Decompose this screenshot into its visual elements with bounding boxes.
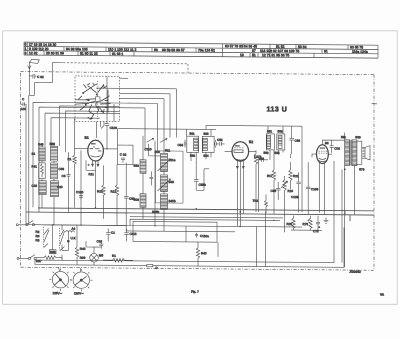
svg-text:C112: C112 <box>130 232 137 236</box>
svg-text:S1: S1 <box>32 152 36 156</box>
svg-text:12 32: 12 32 <box>29 51 38 55</box>
mark VA <box>380 293 385 297</box>
svg-text:13: 13 <box>240 53 244 57</box>
svg-text:C 02: C 02 <box>120 153 127 157</box>
svg-text:D: D <box>156 266 159 270</box>
svg-text:S30: S30 <box>134 164 140 168</box>
svg-text:C03: C03 <box>58 167 64 171</box>
svg-text:C10: C10 <box>97 239 103 243</box>
parts value table <box>24 42 378 58</box>
svg-text:564: 564 <box>275 151 280 155</box>
resistor R8b box <box>50 250 57 254</box>
tube B2 pin wires <box>225 151 256 226</box>
output transformer S76 <box>341 135 365 171</box>
osc wires <box>69 118 96 225</box>
capacitor C52 <box>217 138 225 146</box>
svg-text:563: 563 <box>278 129 283 133</box>
svg-text:51: 51 <box>252 53 256 57</box>
code XG2842 <box>349 270 362 274</box>
svg-text:R19: R19 <box>288 189 294 193</box>
IF transformer 2 left <box>264 129 275 155</box>
coil S40b <box>152 194 176 214</box>
resistor R1 osc <box>68 150 77 168</box>
svg-text:C1: C1 <box>111 231 115 235</box>
bus wire ht3 <box>126 230 235 233</box>
mains terminal bottom <box>17 257 28 259</box>
coil S2 <box>32 181 47 195</box>
svg-text:B2: B2 <box>249 140 253 144</box>
tube B1 <box>85 136 104 161</box>
coil S50 <box>50 142 58 161</box>
svg-text:81: 81 <box>324 49 328 53</box>
IF2 wires <box>206 125 302 170</box>
tube B2 <box>232 140 253 161</box>
svg-text:C6: C6 <box>62 174 66 178</box>
svg-text:78a 124 52: 78a 124 52 <box>198 48 215 52</box>
capacitor C100 <box>21 97 27 111</box>
svg-text:XG2842: XG2842 <box>349 270 362 274</box>
svg-text:53 54: 53 54 <box>298 45 307 49</box>
svg-text:R39: R39 <box>80 256 86 260</box>
capacitor C6 <box>62 173 71 180</box>
capacitor C58b <box>194 165 209 190</box>
svg-text:B1: B1 <box>85 136 89 140</box>
capacitor C112 <box>124 229 137 239</box>
capacitor C02c <box>330 140 341 153</box>
svg-text:C105: C105 <box>291 195 299 199</box>
shield box PSU <box>133 221 217 242</box>
resistor R08 <box>254 150 264 212</box>
selector contacts link1 <box>44 225 53 248</box>
resistor R12 <box>111 164 119 225</box>
resistor R73 capacitor C73 <box>291 216 329 234</box>
svg-text:C: C <box>22 97 25 101</box>
coil S3 <box>51 163 65 179</box>
trimmer arrow S40 <box>158 179 171 191</box>
label R11 <box>89 172 95 176</box>
svg-text:576: 576 <box>359 167 364 171</box>
coil S40 <box>161 175 175 192</box>
title 113U <box>267 106 288 113</box>
svg-text:96: 96 <box>154 48 158 52</box>
chassis tick right <box>372 103 378 105</box>
svg-text:563: 563 <box>204 132 209 136</box>
capacitor C100b <box>105 124 117 134</box>
IF1 tuning cap right <box>215 140 217 148</box>
svg-text:P41: P41 <box>32 164 38 168</box>
bus wire gnd2 <box>26 212 374 221</box>
antenna <box>28 59 40 95</box>
svg-text:C100: C100 <box>76 190 84 194</box>
power row wires <box>44 225 127 266</box>
IF transformer 1 left <box>187 132 199 158</box>
svg-text:R20: R20 <box>287 222 293 226</box>
bus wire agc <box>130 217 283 218</box>
trimmer arrow S11a <box>158 159 171 171</box>
bus wire ht2 <box>26 225 302 227</box>
mains terminal top <box>16 224 25 226</box>
svg-text:C73: C73 <box>313 229 319 233</box>
mains switch pole2 <box>28 255 36 260</box>
capacitor C105 <box>291 172 301 212</box>
svg-text:S40: S40 <box>169 180 175 184</box>
svg-text:R21: R21 <box>293 174 299 178</box>
svg-text:R1: R1 <box>112 254 116 258</box>
svg-text:125V∼: 125V∼ <box>52 291 62 295</box>
svg-text:R1: R1 <box>68 157 72 161</box>
wires switch right <box>105 78 177 99</box>
switch contact a <box>83 83 97 94</box>
svg-text:A4: A4 <box>72 227 76 231</box>
trimmer arrows mid <box>145 138 171 154</box>
IF1 wires <box>118 125 217 166</box>
svg-text:C20: C20 <box>57 185 63 189</box>
tuning loops nested left <box>26 95 158 226</box>
svg-text:R12: R12 <box>111 189 117 193</box>
svg-text:C52: C52 <box>217 138 223 142</box>
svg-text:C173: C173 <box>254 155 262 159</box>
switch drop wires <box>97 76 115 149</box>
svg-text:S08: S08 <box>134 198 140 202</box>
resistor R46 <box>196 242 207 266</box>
capacitor C95 <box>271 182 281 200</box>
svg-text:61 63 1: 61 63 1 <box>112 52 123 56</box>
svg-text:28 30 31 39: 28 30 31 39 <box>46 51 64 55</box>
resistor R20 <box>287 216 296 231</box>
switch contact c <box>98 90 110 113</box>
bus wire gnd1 <box>38 208 374 215</box>
loops inner to switch <box>60 106 120 153</box>
coil S30 <box>134 160 147 174</box>
capacitor C173 <box>254 155 268 212</box>
fuse D <box>147 264 159 270</box>
transformer bottom junction <box>344 165 346 170</box>
svg-text:R3: R3 <box>36 238 40 242</box>
capacitor C140 <box>150 171 154 185</box>
svg-text:Fig. 7: Fig. 7 <box>191 290 199 294</box>
svg-text:562: 562 <box>264 151 269 155</box>
coil S4 <box>51 181 63 197</box>
voltage selector 125V <box>49 268 71 295</box>
svg-text:C54: C54 <box>178 143 184 147</box>
svg-text:C 62: C 62 <box>37 75 44 79</box>
heater drop wires <box>186 211 266 266</box>
svg-text:C110a: C110a <box>200 234 209 238</box>
svg-text:C02: C02 <box>334 147 340 151</box>
capacitor C62b <box>124 163 135 231</box>
svg-text:S11: S11 <box>165 148 171 152</box>
bus wire mains feed <box>35 260 334 263</box>
wire antenna coupling dashed <box>63 63 188 73</box>
labels R2 R6 R3 <box>36 230 40 243</box>
svg-text:C19: C19 <box>32 184 38 188</box>
switch wafer center <box>96 81 101 120</box>
svg-text:R40: R40 <box>80 247 86 251</box>
svg-text:R11: R11 <box>89 172 95 176</box>
svg-text:581: 581 <box>341 135 346 139</box>
resistor R21 <box>289 154 299 189</box>
svg-text:113 U: 113 U <box>267 106 288 113</box>
svg-text:R37: R37 <box>36 259 42 263</box>
svg-text:VA: VA <box>380 293 385 297</box>
resistor TN1 vertical <box>253 194 268 212</box>
resistor R1b horizontal <box>103 254 133 262</box>
svg-text:S40b: S40b <box>169 199 176 203</box>
mains switch pole1 <box>26 221 44 226</box>
svg-text:B6: B6 <box>325 141 329 145</box>
capacitor C88 <box>290 139 301 145</box>
svg-text:C58b: C58b <box>199 183 207 187</box>
svg-text:S49: S49 <box>38 142 44 146</box>
svg-text:U.K: U.K <box>71 236 76 240</box>
voltage selector 220V <box>70 269 92 296</box>
mid wires <box>143 136 164 231</box>
tube B3 <box>317 141 329 164</box>
caption Fig 7 <box>191 290 199 294</box>
tube B3 wires <box>312 140 345 228</box>
loops right verticals <box>145 89 177 151</box>
svg-text:220V∼: 220V∼ <box>74 291 84 295</box>
bus wire ht1 <box>130 219 280 227</box>
selector contacts link2 <box>60 228 65 251</box>
svg-text:S69: S69 <box>355 135 361 139</box>
tube B1 pin wires <box>75 148 118 208</box>
coil shield box <box>156 151 184 203</box>
left column wires <box>42 142 54 225</box>
capacitor C1 <box>106 228 115 238</box>
svg-text:99 58 56 33 57: 99 58 56 33 57 <box>162 48 185 52</box>
svg-text:C95: C95 <box>271 189 277 193</box>
box C02 <box>118 145 134 165</box>
ballast A4 <box>62 225 76 251</box>
svg-text:R73: R73 <box>303 222 309 226</box>
right vertical wires <box>292 126 355 267</box>
coil S08 <box>134 194 147 208</box>
junction dots <box>52 207 309 228</box>
svg-text:R10: R10 <box>97 189 103 193</box>
IF1 tuning cap left <box>178 140 186 148</box>
switch contact b <box>75 84 107 105</box>
svg-text:C100: C100 <box>110 126 118 130</box>
speaker <box>357 141 370 164</box>
svg-text:3: 3 <box>25 51 27 55</box>
svg-text:51 50 11 25: 51 50 11 25 <box>80 52 98 56</box>
resistor R40a <box>75 225 85 260</box>
IF transformer 2 right <box>275 129 285 155</box>
svg-text:C88: C88 <box>295 139 301 143</box>
svg-text:R40: R40 <box>201 251 207 255</box>
svg-text:R8b: R8b <box>50 250 56 254</box>
capacitor C110a <box>195 233 209 238</box>
capacitor C108 <box>306 162 319 214</box>
band switch box dashed <box>75 76 120 122</box>
resistor R10 <box>97 165 105 219</box>
svg-text:R17: R17 <box>267 174 273 178</box>
bus wire fuse line <box>35 225 344 267</box>
pilot lamp <box>90 247 104 265</box>
IF transformer 1 right <box>202 132 214 158</box>
coil-resistor P41 <box>32 163 46 179</box>
selector stems <box>59 267 81 271</box>
capacitor C10 <box>97 239 104 249</box>
svg-text:M6: M6 <box>99 253 104 257</box>
resistor R17 <box>267 170 276 214</box>
svg-text:TN1: TN1 <box>253 199 259 203</box>
chassis border dash-dot <box>21 72 375 271</box>
capacitor C100c <box>76 190 84 199</box>
wire C62 loop <box>29 62 63 95</box>
coil S49 <box>32 142 46 161</box>
svg-text:12 71 31 35 36 75: 12 71 31 35 36 75 <box>262 53 289 57</box>
coil S11a <box>161 153 176 171</box>
resistor R37 horizontal <box>36 256 62 264</box>
svg-text:C108: C108 <box>311 187 319 191</box>
capacitor C62 <box>29 74 44 79</box>
svg-text:116a 124a: 116a 124a <box>352 50 368 54</box>
svg-text:100: 100 <box>21 107 26 111</box>
page edge frame <box>3 31 398 305</box>
svg-text:561: 561 <box>190 132 195 136</box>
switch contact d <box>78 94 98 120</box>
potentiometer R19 <box>281 176 293 232</box>
svg-text:S50: S50 <box>50 142 56 146</box>
